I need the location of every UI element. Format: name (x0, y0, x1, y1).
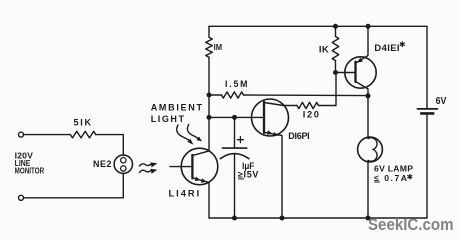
svg-text:≥I5V: ≥I5V (238, 169, 259, 179)
svg-text:LIGHT: LIGHT (151, 114, 185, 124)
svg-text:5IK: 5IK (74, 118, 92, 128)
svg-text:DI6PI: DI6PI (288, 131, 309, 141)
svg-text:I20: I20 (303, 110, 319, 120)
svg-text:MONITOR: MONITOR (15, 166, 45, 176)
svg-text:IM: IM (214, 42, 222, 52)
svg-text:I.5M: I.5M (225, 79, 248, 89)
svg-text:6V: 6V (436, 96, 447, 107)
svg-text:IK: IK (319, 45, 329, 56)
svg-text:LI4RI: LI4RI (169, 188, 200, 198)
svg-text:6V LAMP: 6V LAMP (374, 164, 413, 174)
svg-text:SeekIC.com: SeekIC.com (368, 216, 454, 234)
svg-text:AMBIENT: AMBIENT (151, 103, 203, 113)
svg-text:D4IEI: D4IEI (374, 42, 399, 53)
svg-text:NE2: NE2 (93, 159, 112, 169)
